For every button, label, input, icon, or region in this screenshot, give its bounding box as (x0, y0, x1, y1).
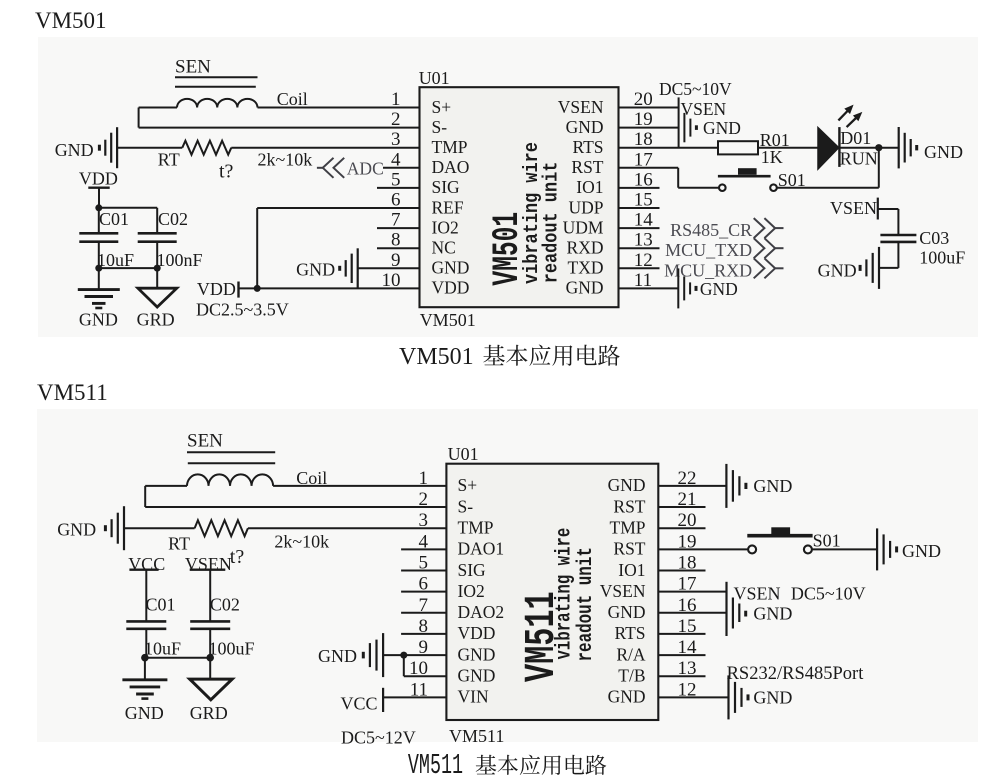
svg-text:U01: U01 (448, 444, 479, 464)
svg-text:VIN: VIN (458, 687, 489, 707)
svg-text:GND: GND (902, 541, 941, 561)
svg-text:GND: GND (703, 118, 741, 138)
svg-text:VSEN: VSEN (185, 554, 232, 574)
svg-text:GRD: GRD (190, 703, 228, 723)
svg-text:t?: t? (219, 161, 234, 183)
svg-text:GND: GND (55, 140, 94, 160)
svg-text:IO2: IO2 (458, 581, 485, 601)
svg-text:GND: GND (608, 602, 646, 622)
svg-text:10uF: 10uF (97, 250, 134, 270)
svg-text:S-: S- (458, 496, 474, 516)
svg-text:VM501: VM501 (35, 8, 107, 33)
svg-text:100nF: 100nF (157, 250, 203, 270)
svg-text:RS232/RS485Port: RS232/RS485Port (727, 664, 865, 684)
svg-text:GND: GND (608, 687, 646, 707)
svg-text:2k~10k: 2k~10k (274, 532, 329, 552)
svg-text:ADC: ADC (347, 158, 384, 178)
svg-text:VSEN: VSEN (600, 581, 646, 601)
svg-text:GND: GND (318, 646, 357, 666)
svg-text:VDD: VDD (458, 623, 496, 643)
svg-text:RXD: RXD (567, 238, 604, 258)
svg-text:TMP: TMP (610, 518, 646, 538)
svg-text:RST: RST (571, 157, 603, 177)
svg-text:GND: GND (566, 117, 604, 137)
svg-text:UDM: UDM (563, 217, 604, 237)
svg-text:SEN: SEN (175, 57, 211, 78)
svg-text:SIG: SIG (458, 560, 487, 580)
svg-text:TMP: TMP (458, 518, 494, 538)
svg-text:GND: GND (753, 604, 792, 624)
svg-text:DC5~10V: DC5~10V (659, 79, 732, 99)
svg-text:GND: GND (125, 703, 164, 723)
svg-text:GND: GND (818, 261, 857, 281)
svg-text:D01: D01 (840, 128, 871, 148)
svg-text:VSEN: VSEN (558, 97, 604, 117)
svg-text:VDD: VDD (197, 279, 236, 299)
svg-text:GND: GND (753, 688, 792, 708)
svg-text:Coil: Coil (277, 89, 308, 109)
svg-text:S-: S- (432, 117, 448, 137)
svg-text:t?: t? (230, 546, 245, 568)
svg-text:VSEN: VSEN (830, 198, 877, 218)
svg-text:VM511: VM511 (449, 726, 504, 746)
svg-text:GND: GND (458, 644, 496, 664)
svg-text:C02: C02 (158, 209, 188, 229)
svg-text:RT: RT (168, 534, 190, 554)
svg-text:RT: RT (158, 149, 180, 169)
svg-text:DAO2: DAO2 (458, 602, 505, 622)
svg-text:VCC: VCC (341, 694, 378, 714)
svg-text:DC2.5~3.5V: DC2.5~3.5V (196, 299, 289, 319)
svg-text:GND: GND (79, 310, 118, 330)
svg-text:DC5~12V: DC5~12V (341, 728, 416, 748)
svg-text:VM511: VM511 (408, 751, 463, 783)
svg-text:GND: GND (57, 520, 96, 540)
svg-text:DAO1: DAO1 (458, 539, 505, 559)
svg-text:100uF: 100uF (209, 639, 255, 659)
svg-text:GND: GND (432, 258, 470, 278)
svg-text:VDD: VDD (432, 278, 470, 298)
svg-text:MCU_RXD: MCU_RXD (664, 260, 752, 280)
svg-text:C02: C02 (210, 595, 240, 615)
svg-text:TMP: TMP (432, 137, 468, 157)
svg-text:GRD: GRD (137, 310, 175, 330)
svg-text:UDP: UDP (568, 197, 603, 217)
svg-text:RST: RST (613, 496, 645, 516)
svg-text:S+: S+ (432, 97, 452, 117)
svg-text:RS485_CR: RS485_CR (670, 220, 752, 240)
svg-text:RTS: RTS (614, 623, 645, 643)
svg-text:DC5~10V: DC5~10V (791, 584, 866, 604)
svg-text:GND: GND (700, 279, 738, 299)
svg-text:REF: REF (432, 197, 464, 217)
svg-text:VM501: VM501 (420, 310, 476, 330)
svg-text:RTS: RTS (572, 137, 603, 157)
svg-text:VSEN: VSEN (681, 99, 727, 119)
svg-text:S01: S01 (813, 531, 841, 551)
svg-text:C01: C01 (146, 595, 176, 615)
svg-text:SEN: SEN (187, 431, 223, 452)
svg-text:readout unit: readout unit (539, 162, 563, 284)
svg-text:U01: U01 (419, 68, 450, 88)
svg-text:C01: C01 (99, 209, 129, 229)
svg-text:2k~10k: 2k~10k (258, 149, 313, 169)
svg-text:readout unit: readout unit (573, 547, 598, 661)
svg-text:R/A: R/A (616, 644, 646, 664)
svg-text:C03: C03 (919, 228, 949, 248)
svg-text:TXD: TXD (568, 258, 604, 278)
svg-text:IO1: IO1 (618, 560, 645, 580)
svg-text:RUN: RUN (840, 149, 878, 169)
svg-text:RST: RST (613, 539, 645, 559)
svg-text:VDD: VDD (79, 169, 118, 189)
svg-text:DAO: DAO (432, 157, 470, 177)
svg-text:T/B: T/B (618, 666, 645, 686)
svg-text:VM511: VM511 (37, 380, 108, 405)
svg-text:GND: GND (608, 475, 646, 495)
svg-text:GND: GND (924, 142, 963, 162)
svg-text:10uF: 10uF (144, 639, 181, 659)
svg-text:100uF: 100uF (919, 248, 965, 268)
svg-text:MCU_TXD: MCU_TXD (665, 240, 752, 260)
svg-text:SIG: SIG (432, 177, 461, 197)
svg-text:NC: NC (432, 238, 456, 258)
svg-text:GND: GND (458, 666, 496, 686)
svg-text:GND: GND (753, 476, 792, 496)
svg-text:S+: S+ (458, 475, 478, 495)
svg-text:GND: GND (296, 260, 335, 280)
svg-text:1K: 1K (761, 147, 783, 167)
svg-text:GND: GND (566, 278, 604, 298)
svg-text:IO2: IO2 (432, 217, 459, 237)
svg-text:VSEN: VSEN (734, 584, 781, 604)
svg-text:IO1: IO1 (576, 177, 603, 197)
svg-text:VM501: VM501 (399, 344, 474, 370)
